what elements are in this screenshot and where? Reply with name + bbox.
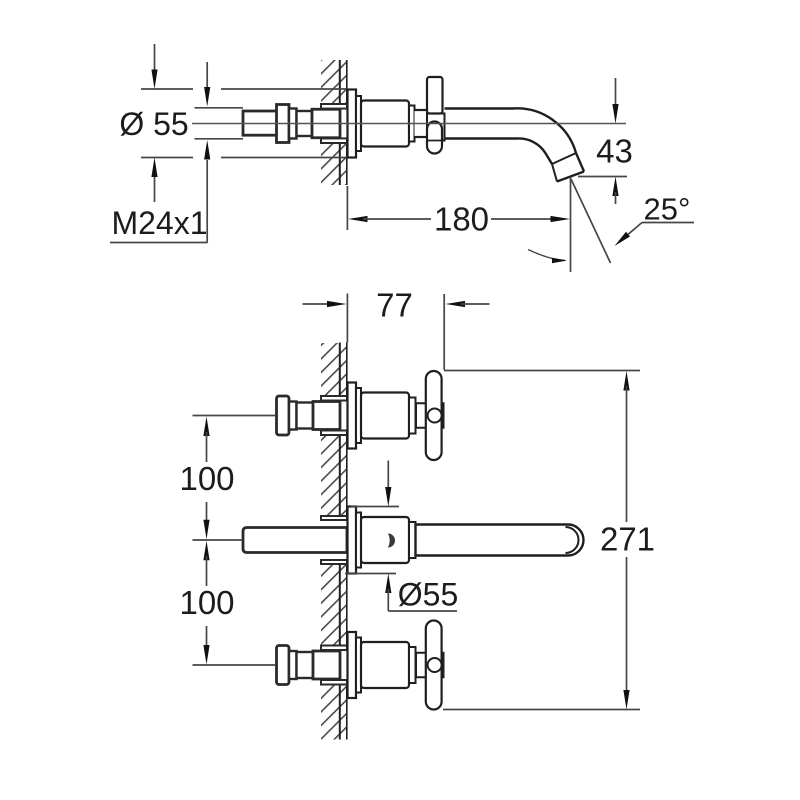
svg-text:100: 100 xyxy=(179,460,234,497)
lower handle valve escutcheon flange xyxy=(348,632,362,698)
dimension 100 (upper) extension lines xyxy=(193,416,277,666)
svg-text:100: 100 xyxy=(179,584,234,621)
upper handle valve escutcheon flange xyxy=(348,383,362,449)
spout outlet piece xyxy=(552,153,584,182)
dimension 180 extension lines xyxy=(347,177,570,272)
upper handle valve cross handle vertical arm xyxy=(426,371,442,460)
escutcheon flange on wall (top view) xyxy=(348,90,362,158)
lower handle valve cross handle front arm (circle) xyxy=(428,658,442,672)
wall (front mounting) lines xyxy=(340,343,347,740)
wall (top view) hatching xyxy=(321,60,347,185)
dimension Ø55 arrows xyxy=(151,44,157,202)
svg-text:180: 180 xyxy=(434,201,489,238)
spout supply pipe behind wall xyxy=(243,516,347,564)
valve escutcheon cylinder (top view) xyxy=(361,101,415,147)
25 degree angle arc xyxy=(528,250,565,261)
lower handle valve concealed valve behind wall xyxy=(277,646,348,685)
lower handle valve escutcheon cylinder xyxy=(361,642,416,688)
concealed valve body behind wall (top view) xyxy=(243,104,347,143)
upper handle valve concealed valve behind wall xyxy=(277,396,348,435)
cross handle upper arm (top view) xyxy=(427,77,443,114)
dimension 271 extension lines xyxy=(443,371,640,710)
svg-text:M24x1: M24x1 xyxy=(111,205,207,241)
svg-text:77: 77 xyxy=(376,287,413,324)
dimension M24x1 arrows and leader xyxy=(110,62,243,243)
dimension 271 line and arrows xyxy=(623,371,629,710)
spout axis centerline xyxy=(192,123,626,125)
dimension 77 line and arrows xyxy=(303,301,490,307)
svg-text:43: 43 xyxy=(596,133,633,170)
cross handle lower arm (top view) xyxy=(427,122,445,154)
25 degree leader xyxy=(615,223,695,247)
spout tube (front mounting view) xyxy=(416,525,584,556)
svg-text:25°: 25° xyxy=(644,192,691,227)
wall (front mounting) hatching xyxy=(321,343,347,740)
dimension 180 line and arrows xyxy=(348,216,570,222)
cross handle hub (top view) xyxy=(427,114,445,141)
spout escutcheon flange xyxy=(348,507,362,574)
25 degree reference line xyxy=(571,179,611,263)
upper handle valve escutcheon cylinder xyxy=(361,393,416,439)
dimension Ø55 (flange) arrows xyxy=(345,461,457,612)
wall (top view) lines xyxy=(340,60,347,185)
spout tube and bend (top view) xyxy=(445,108,585,171)
upper handle valve cross handle front arm (circle) xyxy=(428,409,442,423)
dimension 77 extension lines xyxy=(347,294,444,371)
dimension 100 (upper) arrows xyxy=(203,417,209,540)
svg-text:Ø55: Ø55 xyxy=(398,577,458,613)
dimension Ø55 extension lines (top) xyxy=(141,89,347,158)
handle neck (top view) xyxy=(415,110,429,137)
upper handle valve cross handle hub xyxy=(416,403,444,428)
lower handle valve cross handle hub xyxy=(416,653,444,678)
lower handle valve cross handle vertical arm xyxy=(426,621,442,710)
dimension 43 arrows xyxy=(578,78,627,204)
svg-text:Ø 55: Ø 55 xyxy=(119,106,188,142)
svg-text:271: 271 xyxy=(600,521,655,558)
dimension 100 (lower) arrows xyxy=(203,541,209,665)
spout escutcheon cylinder xyxy=(361,517,416,563)
